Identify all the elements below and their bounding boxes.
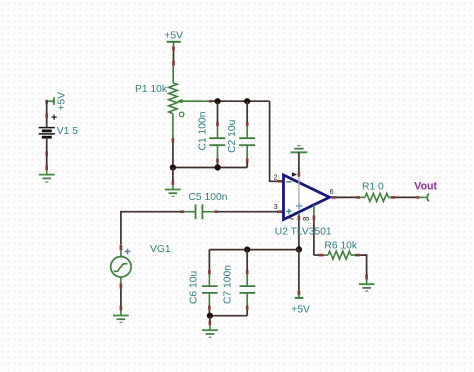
wire pin8 to R6 — [314, 254, 324, 256]
svg-text:+5V: +5V — [57, 92, 68, 111]
label R6 10k — [324, 240, 357, 251]
capacitor C7 plates — [240, 286, 256, 293]
potentiometer P1 body — [169, 83, 177, 114]
svg-text:P1 10k: P1 10k — [135, 84, 168, 95]
capacitor C5 right lead — [202, 211, 217, 213]
node dot wiper/C1 — [215, 98, 221, 104]
+5V label (rotated) at battery — [57, 92, 68, 111]
capacitor C6 top lead — [208, 250, 210, 287]
svg-text:C1 100n: C1 100n — [197, 111, 208, 150]
wire bypass node horizontal — [209, 249, 299, 251]
capacitor C7 bottom lead — [246, 293, 248, 316]
label C5 100n — [189, 192, 228, 203]
inverted ground (V- supply) above op-amp — [291, 146, 308, 153]
node dot P1 bottom — [170, 164, 176, 170]
capacitor C6 bottom lead — [208, 293, 210, 316]
svg-text:+5V: +5V — [291, 305, 310, 316]
wire V- supply to op-amp top — [298, 152, 300, 202]
ground below V1 — [39, 170, 55, 182]
pin 3 number — [274, 202, 278, 211]
svg-text:6: 6 — [330, 187, 334, 196]
label V1 5 — [57, 126, 78, 137]
P1 bottom lead — [172, 114, 174, 144]
wire battery top — [46, 101, 48, 127]
capacitor C2 bottom lead — [246, 145, 248, 167]
wire +5V to P1 — [172, 51, 174, 83]
label C2 10u (rotated) — [227, 119, 238, 152]
capacitor C1 top lead — [217, 101, 219, 138]
VG1 bottom pin — [120, 277, 122, 289]
svg-text:+5V: +5V — [164, 31, 183, 42]
power +5V supply at battery V1 top — [47, 97, 54, 105]
ground below VG1 — [113, 311, 129, 323]
ground below C6 — [202, 325, 218, 337]
wire node to ground — [172, 168, 174, 186]
capacitor C1 plates — [209, 138, 225, 145]
capacitor C2 top lead — [246, 101, 248, 138]
capacitor C1 bottom lead — [217, 145, 219, 167]
wire R6 to ground — [360, 255, 366, 279]
op-amp plus marking — [286, 209, 291, 214]
op-amp pin8 lead down — [313, 205, 315, 255]
power pin arrowhead — [292, 172, 297, 177]
wire VG1 to ground — [120, 289, 122, 311]
label C7 100n (rotated) — [223, 265, 234, 304]
pin 8 number (rotated) — [302, 216, 311, 220]
label U2 TLV3501 — [275, 226, 332, 237]
svg-text:U2 TLV3501: U2 TLV3501 — [275, 226, 332, 237]
wire C6 node to ground — [209, 316, 211, 326]
ground below R6 — [359, 280, 375, 292]
capacitor C5 plates — [196, 204, 203, 219]
svg-text:C2 10u: C2 10u — [227, 119, 238, 152]
wire R1 to Vout — [395, 196, 419, 198]
svg-text:V1 5: V1 5 — [57, 126, 78, 137]
label Vout — [414, 181, 437, 193]
op-amp V+ bottom pin — [298, 213, 300, 250]
svg-text:2: 2 — [274, 173, 278, 182]
VG1 plus sign — [125, 249, 131, 255]
svg-text:C5 100n: C5 100n — [189, 192, 228, 203]
label C1 100n (rotated) — [197, 111, 208, 150]
wire bottom node C1/C2 — [173, 167, 247, 169]
label VG1 — [150, 244, 171, 255]
svg-text:VG1: VG1 — [150, 244, 171, 255]
wire C5 to pin3 — [218, 211, 284, 213]
wire C2 bottom riser — [246, 163, 248, 168]
capacitor C2 plates — [239, 138, 255, 145]
svg-text:C7 100n: C7 100n — [223, 265, 234, 304]
capacitor C7 top lead — [246, 250, 248, 287]
svg-text:3: 3 — [274, 202, 278, 211]
label R1 0 — [362, 181, 384, 192]
wire P1 to bottom node — [172, 143, 174, 168]
svg-text:C6 10u: C6 10u — [189, 271, 200, 304]
wire C6/C7 bottom — [209, 315, 247, 317]
wire op-amp output — [331, 196, 360, 198]
VG1 top pin — [120, 245, 123, 257]
capacitor C5 left lead — [184, 211, 195, 213]
node dot wiper/C2 — [244, 98, 250, 104]
ground below P1 node — [165, 185, 181, 196]
P1 wiper circle marker — [179, 112, 184, 117]
svg-text:R1 0: R1 0 — [362, 181, 384, 192]
label P1 10k — [135, 84, 168, 95]
pin 6 number — [330, 187, 334, 196]
label C6 10u (rotated) — [189, 271, 200, 304]
P1 wiper arrow — [176, 99, 212, 104]
svg-text:Vout: Vout — [414, 181, 437, 193]
generator VG1 — [111, 257, 131, 277]
svg-text:8: 8 — [302, 216, 311, 220]
wire +5V below op-amp — [298, 249, 300, 295]
power +5V supply above P1 — [164, 31, 183, 51]
wire down to pin2 — [270, 101, 284, 181]
resistor R6 — [324, 251, 361, 259]
output terminal Vout — [419, 194, 429, 201]
wire wiper node (top horizontal) — [212, 100, 270, 102]
capacitor C6 plates — [202, 286, 218, 293]
battery V1 — [39, 128, 55, 138]
battery V1 plus sign — [52, 115, 57, 120]
node dot C7 top — [244, 247, 250, 253]
op-amp minus marking — [286, 181, 291, 183]
op-amp tilde marking — [290, 218, 294, 219]
wire battery bottom — [46, 137, 48, 170]
op-amp V+ plus marking — [296, 203, 303, 210]
pin 2 number — [274, 173, 278, 182]
wire VG1 to C5 — [121, 212, 184, 245]
node dot op-amp V+ / bypass — [296, 246, 302, 252]
op-amp U2 TLV3501 — [284, 175, 330, 220]
resistor R1 — [360, 193, 395, 201]
node dot C1 bottom — [215, 164, 221, 170]
node dot C6 bottom — [207, 313, 213, 319]
power +5V supply below op-amp — [291, 295, 310, 315]
